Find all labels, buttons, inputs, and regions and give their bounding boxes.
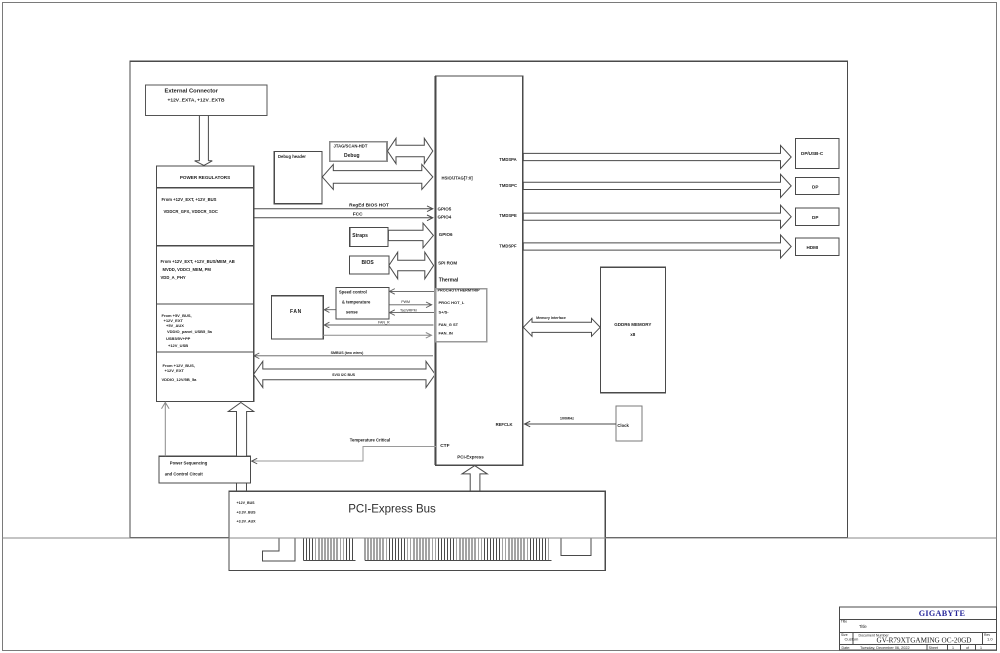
svg-text:100MHz: 100MHz [560, 417, 574, 421]
svg-text:Thermal: Thermal [439, 277, 459, 283]
svg-text:JTAG/SCAN-HDT: JTAG/SCAN-HDT [334, 144, 368, 149]
block: JTAG Debug [330, 142, 387, 161]
wire: arrow Straps to GPU [388, 223, 433, 248]
wire: speed control to GPU PWM line [389, 302, 432, 308]
svg-text:+12V_USB: +12V_USB [168, 343, 188, 348]
block: DP connector 2 [795, 208, 839, 225]
wire: GPU to speed control tach line [389, 310, 436, 316]
block: Debug header [274, 152, 322, 204]
svg-text:VDDIO_12V/5B_5a: VDDIO_12V/5B_5a [162, 377, 198, 382]
wire: REFCLK line Clock to GPU [525, 421, 617, 427]
svg-text:VDD_A_PHY: VDD_A_PHY [161, 275, 186, 280]
wire: TMDSPF arrow to HDMI [523, 235, 791, 258]
svg-text:SPI ROM: SPI ROM [438, 261, 457, 266]
svg-text:Title: Title [841, 620, 847, 624]
svg-text:1.0: 1.0 [987, 637, 993, 642]
wire: FAN to GPU FAN_IN [323, 333, 431, 339]
svg-text:Memory Interface: Memory Interface [536, 316, 566, 320]
svg-text:Tuesday, December 06, 2022: Tuesday, December 06, 2022 [860, 646, 910, 650]
svg-text:Debug header: Debug header [278, 154, 306, 159]
svg-text:VDDIO_panel_USB5_5a: VDDIO_panel_USB5_5a [167, 329, 213, 334]
svg-text:Clock: Clock [617, 423, 629, 428]
svg-text:Temperature Critical: Temperature Critical [350, 438, 390, 443]
svg-text:Speed control: Speed control [339, 290, 367, 295]
svg-text:FAN_R: FAN_R [378, 321, 390, 325]
svg-text:TMDSPF: TMDSPF [499, 244, 517, 249]
block: DP/USB-C connector [795, 139, 839, 169]
main diagram border [130, 61, 848, 537]
svg-text:+3.3V_BUS: +3.3V_BUS [237, 511, 257, 515]
wire: double arrow BIOS to GPU [389, 252, 434, 279]
title block [840, 607, 997, 650]
svg-text:RegEd BIOS HOT: RegEd BIOS HOT [349, 202, 389, 208]
svg-text:Date:: Date: [842, 646, 851, 650]
svg-text:PCI-Express Bus: PCI-Express Bus [348, 504, 436, 516]
svg-text:PROCHOT/THERMTRIP: PROCHOT/THERMTRIP [438, 289, 481, 293]
wire: hollow arrow up to Power Regulators [228, 403, 253, 457]
svg-text:GPIO5: GPIO5 [438, 206, 452, 211]
svg-text:USB5/5V+PP: USB5/5V+PP [166, 336, 191, 341]
svg-text:External Connector: External Connector [165, 89, 219, 95]
wire: TMDSPC arrow to DP [523, 174, 791, 197]
wire: Regulator HOT line [254, 206, 433, 212]
block: HDMI connector [795, 238, 839, 255]
svg-text:DP/USB-C: DP/USB-C [801, 151, 824, 156]
svg-text:+12V_BUS: +12V_BUS [237, 501, 256, 505]
svg-text:Custom: Custom [845, 637, 859, 642]
svg-text:HDMI: HDMI [807, 245, 819, 250]
svg-text:Power Sequencing: Power Sequencing [170, 461, 208, 466]
wire: memory double arrow [523, 318, 600, 336]
svg-text:DP: DP [812, 185, 818, 190]
svg-text:CTF: CTF [440, 443, 449, 449]
svg-text:1: 1 [980, 646, 982, 650]
block: Speed control temperature sense [336, 287, 389, 319]
svg-text:Tach/RPM: Tach/RPM [400, 308, 417, 312]
svg-text:VDDCR_GFX, VDDCR_SOC: VDDCR_GFX, VDDCR_SOC [164, 209, 218, 214]
svg-text:GIGABYTE: GIGABYTE [919, 609, 966, 618]
svg-text:S+/S-: S+/S- [439, 310, 450, 315]
svg-text:PROC HOT_L: PROC HOT_L [439, 300, 465, 305]
wire: GPU FAN_G ST to FAN [324, 322, 433, 328]
block: PCI-Express Bus [229, 491, 605, 570]
block: FAN [272, 296, 324, 339]
svg-text:TMDSPC: TMDSPC [499, 183, 517, 188]
block: GDDR6 MEMORY x8 [600, 267, 665, 393]
wire: SMBUS line [254, 353, 433, 359]
svg-text:x8: x8 [630, 332, 636, 337]
svg-text:PWM: PWM [401, 300, 410, 304]
svg-text:HSIO/JTAG[7:0]: HSIO/JTAG[7:0] [442, 176, 474, 181]
svg-text:SVI3 I2C BUS: SVI3 I2C BUS [332, 373, 356, 377]
svg-text:FAN: FAN [290, 309, 302, 315]
wire: hollow arrow PCI bus to GPU [462, 466, 487, 492]
svg-text:From +12V_EXT, +12V_BUS/MEM_AB: From +12V_EXT, +12V_BUS/MEM_AB [161, 259, 235, 264]
svg-text:TMDSPA: TMDSPA [499, 157, 516, 162]
svg-text:+5V_AUX: +5V_AUX [166, 323, 184, 328]
svg-text:Title: Title [859, 624, 867, 629]
block: thermal sub-box in GPU [436, 289, 487, 342]
svg-text:TMDSPE: TMDSPE [499, 213, 517, 218]
svg-text:PCI-Express: PCI-Express [457, 455, 484, 460]
svg-text:GPIO6: GPIO6 [439, 232, 453, 237]
wire: board edge line through PCI bus [3, 537, 997, 539]
svg-text:BIOS: BIOS [362, 260, 375, 266]
svg-text:Straps: Straps [352, 233, 368, 239]
svg-text:Debug: Debug [344, 153, 360, 159]
svg-text:of: of [966, 646, 969, 650]
svg-text:Sheet: Sheet [929, 646, 938, 650]
wire: SVI bus double arrow Power Regulators to GPU [254, 361, 436, 387]
svg-text:SMBUS (two wires): SMBUS (two wires) [331, 351, 365, 355]
svg-text:1: 1 [952, 646, 954, 650]
svg-text:GDDR6 MEMORY: GDDR6 MEMORY [614, 322, 651, 327]
block: POWER REGULATORS [156, 166, 253, 401]
wire: double arrow JTAG to GPU [388, 138, 433, 163]
wire: shaft below Power Sequencing to PCI bus [237, 483, 247, 491]
svg-text:REFCLK: REFCLK [496, 422, 513, 427]
svg-text:FAN_IN: FAN_IN [439, 331, 453, 336]
wire: thermal to speed control line 1 [389, 289, 436, 295]
wire: arrow External Connector to Power Regulators [195, 116, 213, 166]
block: Power Sequencing and Control Circuit [159, 456, 251, 483]
block: Straps [350, 227, 388, 246]
wire: TMDSPE arrow to DP [523, 205, 791, 228]
svg-text:From +12V_EXT, +12V_BUS: From +12V_EXT, +12V_BUS [162, 197, 217, 202]
block: BIOS [350, 256, 389, 274]
svg-text:GPIO4: GPIO4 [438, 214, 452, 219]
svg-text:DP: DP [812, 215, 818, 220]
svg-text:+12V_EXT: +12V_EXT [165, 368, 185, 373]
svg-text:and Control Circuit: and Control Circuit [165, 472, 204, 477]
connector: right tab [561, 539, 591, 556]
wire: speed control to FAN [324, 307, 336, 313]
block: GPU (central) [435, 76, 522, 465]
svg-text:FCC: FCC [353, 212, 363, 218]
wire: Temperature Critical line [252, 446, 436, 461]
block: Clock [616, 406, 642, 441]
svg-text:FAN_G ST: FAN_G ST [439, 322, 459, 327]
svg-text:MVDD, VDDCI_MEM, PM: MVDD, VDDCI_MEM, PM [163, 267, 212, 272]
wire: FCC line [254, 215, 433, 221]
svg-text:+3.3V_AUX: +3.3V_AUX [237, 519, 257, 523]
block: External Connector [146, 85, 268, 116]
wire: double arrow Debug header to GPU [322, 164, 433, 189]
connector: PCIe key notch [263, 539, 296, 562]
svg-text:GV-R79XTGAMING OC-20GD: GV-R79XTGAMING OC-20GD [877, 637, 972, 645]
wire: thin arrow Power Sequencing to Power Regulators [162, 402, 170, 456]
svg-text:sense: sense [346, 310, 359, 315]
svg-text:POWER REGULATORS: POWER REGULATORS [180, 175, 230, 180]
wire: TMDSPA arrow to DP/USB-C [523, 145, 791, 168]
svg-text:+12V_EXTA, +12V_EXTB: +12V_EXTA, +12V_EXTB [168, 97, 225, 103]
svg-text:& temperature: & temperature [342, 300, 371, 305]
block: DP connector 1 [795, 178, 839, 195]
connector: gold fingers group 1 [304, 539, 356, 561]
connector: gold fingers group 2 [365, 539, 552, 561]
